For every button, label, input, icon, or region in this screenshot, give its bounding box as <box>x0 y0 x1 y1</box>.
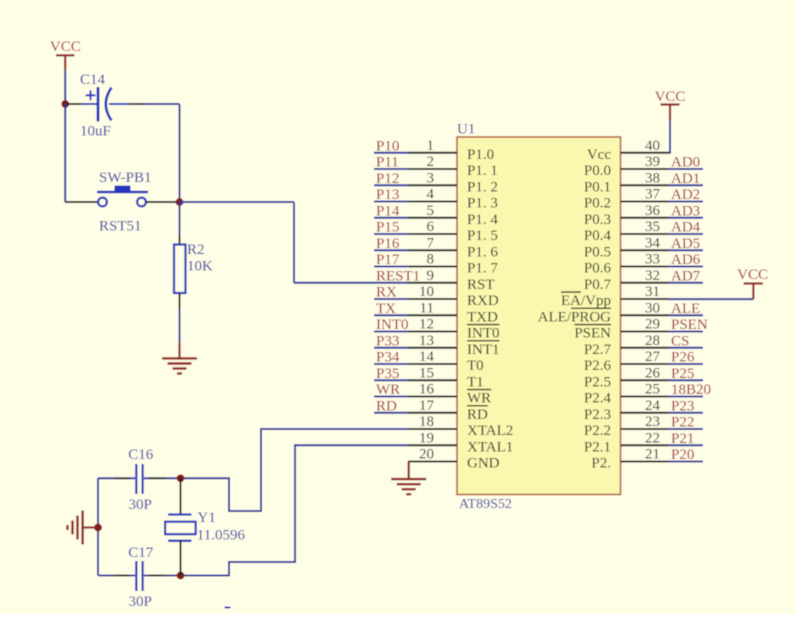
wire net AD1 <box>669 184 704 186</box>
wire left column to C16 <box>98 477 114 479</box>
switch contact circles <box>98 198 107 207</box>
svg-text:T0: T0 <box>467 358 484 374</box>
svg-text:16: 16 <box>419 382 435 398</box>
capacitor C14 right pin <box>109 103 130 105</box>
svg-text:4: 4 <box>427 187 435 203</box>
svg-text:AD1: AD1 <box>671 171 700 187</box>
pin 27 stub (P2.6) <box>621 363 669 365</box>
svg-text:39: 39 <box>645 154 660 170</box>
wire C14 to corner <box>146 103 180 105</box>
resistor R2 top pin <box>179 236 181 245</box>
svg-text:P21: P21 <box>671 431 694 447</box>
pin 15 stub (T1) <box>408 379 457 381</box>
wire net P16 <box>374 249 409 251</box>
svg-text:P0.1: P0.1 <box>584 179 611 195</box>
pin 32 stub (P0.7) <box>621 282 669 284</box>
svg-text:P1. 3: P1. 3 <box>467 196 498 212</box>
svg-text:33: 33 <box>645 252 660 268</box>
wire left column to C17 <box>98 575 114 577</box>
svg-text:P1. 5: P1. 5 <box>467 228 498 244</box>
svg-text:P2.3: P2.3 <box>584 407 611 423</box>
svg-text:P23: P23 <box>671 398 694 414</box>
svg-text:P25: P25 <box>671 366 694 382</box>
svg-text:P2.4: P2.4 <box>584 391 612 407</box>
svg-text:18B20: 18B20 <box>671 382 711 398</box>
pin 30 stub (ALE/PROG) <box>621 314 669 316</box>
wire net P13 <box>374 201 409 203</box>
resistor R2 body <box>174 245 186 294</box>
svg-text:P1. 4: P1. 4 <box>467 212 498 228</box>
svg-text:14: 14 <box>419 349 435 365</box>
svg-text:RD: RD <box>467 407 488 423</box>
svg-text:24: 24 <box>645 398 661 414</box>
svg-text:P2.2: P2.2 <box>584 423 611 439</box>
svg-text:RST51: RST51 <box>99 219 142 235</box>
svg-text:P2.6: P2.6 <box>584 358 612 374</box>
wire net TX <box>374 314 409 316</box>
wire net P26 <box>669 363 704 365</box>
svg-text:7: 7 <box>427 235 435 251</box>
svg-text:3: 3 <box>427 170 435 186</box>
crystal Y1 bottom pin <box>180 541 182 576</box>
svg-text:P33: P33 <box>376 333 399 349</box>
svg-text:P1. 6: P1. 6 <box>467 244 498 260</box>
pin 1 stub (P1.0) <box>408 152 457 154</box>
svg-text:AD5: AD5 <box>671 236 700 252</box>
wire net RX <box>374 298 409 300</box>
wire net P14 <box>374 217 409 219</box>
svg-text:P1. 1: P1. 1 <box>467 163 498 179</box>
svg-text:AD0: AD0 <box>671 155 700 171</box>
svg-text:C16: C16 <box>128 447 154 463</box>
pin 17 stub (RD) <box>408 412 457 414</box>
svg-text:P20: P20 <box>671 447 694 463</box>
wire net AD3 <box>669 217 704 219</box>
svg-text:WR: WR <box>467 391 491 407</box>
svg-text:VCC: VCC <box>50 39 81 55</box>
svg-text:P2.1: P2.1 <box>584 439 611 455</box>
svg-text:INT0: INT0 <box>376 317 409 333</box>
svg-text:30P: 30P <box>129 497 152 513</box>
wire net P10 <box>374 152 409 154</box>
pin 35 stub (P0.4) <box>621 233 669 235</box>
wire net REST1 <box>294 282 409 284</box>
op IC U1 AT89S52 body <box>457 137 621 495</box>
svg-text:P0.2: P0.2 <box>584 196 611 212</box>
svg-text:TXD: TXD <box>467 309 498 325</box>
pin 34 stub (P0.5) <box>621 249 669 251</box>
wire VCC to C14 row <box>64 70 66 104</box>
wire net P20 <box>669 461 704 463</box>
svg-text:CS: CS <box>671 333 689 349</box>
svg-text:P11: P11 <box>376 155 399 171</box>
svg-text:21: 21 <box>645 447 660 463</box>
svg-text:31: 31 <box>645 284 660 300</box>
switch left pin <box>65 201 98 203</box>
wire XTAL1 (pin 19) to crystal bottom <box>181 445 410 575</box>
ground (crystal, rotated) <box>83 526 98 528</box>
svg-text:P0.5: P0.5 <box>584 244 611 260</box>
pin 28 stub (P2.7) <box>621 347 669 349</box>
svg-text:11.0596: 11.0596 <box>197 528 246 544</box>
crystal Y1 top pin <box>180 478 182 514</box>
svg-text:U1: U1 <box>457 121 475 137</box>
wire corner down to pin 9 <box>293 202 295 283</box>
wire net P25 <box>669 379 704 381</box>
wire switch junction down to R2 <box>179 202 181 236</box>
wire switch to REST1 corner <box>180 201 295 203</box>
pin 33 stub (P0.6) <box>621 266 669 268</box>
pin 4 stub (P1. 3) <box>408 201 457 203</box>
svg-text:P1.0: P1.0 <box>467 147 494 163</box>
wire net P22 <box>669 428 704 430</box>
capacitor C16 plates <box>135 464 137 494</box>
pin 39 stub (P0.0) <box>621 168 669 170</box>
svg-text:32: 32 <box>645 268 660 284</box>
svg-text:40: 40 <box>645 138 660 154</box>
svg-text:VCC: VCC <box>655 89 686 105</box>
wire net AD0 <box>669 168 704 170</box>
wire net AD4 <box>669 233 704 235</box>
svg-text:ALE/PROG: ALE/PROG <box>538 309 612 325</box>
wire net P12 <box>374 184 409 186</box>
capacitor C16 right pin <box>144 477 149 479</box>
wire net AD7 <box>669 282 704 284</box>
svg-text:C17: C17 <box>128 545 154 561</box>
svg-text:R2: R2 <box>187 242 205 258</box>
pin 37 stub (P0.2) <box>621 201 669 203</box>
svg-text:36: 36 <box>645 203 661 219</box>
svg-text:ALE: ALE <box>671 301 700 317</box>
svg-text:10K: 10K <box>187 259 213 275</box>
svg-text:10uF: 10uF <box>80 124 111 140</box>
junction crystal top <box>177 474 185 482</box>
pin 5 stub (P1. 4) <box>408 217 457 219</box>
overline PROG <box>571 307 611 309</box>
pin 18 stub (XTAL2) <box>408 428 457 430</box>
capacitor C17 plates <box>135 561 137 591</box>
svg-text:SW-PB1: SW-PB1 <box>99 170 152 186</box>
pin 3 stub (P1. 2) <box>408 184 457 186</box>
pin 21 stub (P2.) <box>621 461 669 463</box>
svg-text:T1: T1 <box>467 374 484 390</box>
svg-text:17: 17 <box>419 398 435 414</box>
svg-text:AD3: AD3 <box>671 203 700 219</box>
pin 11 stub (TXD) <box>408 314 457 316</box>
svg-text:12: 12 <box>419 317 434 333</box>
resistor R2 bottom pin <box>179 293 181 308</box>
svg-text:REST1: REST1 <box>376 268 420 284</box>
pin 6 stub (P1. 5) <box>408 233 457 235</box>
pin 8 stub (P1. 7) <box>408 266 457 268</box>
svg-text:TX: TX <box>376 301 396 317</box>
wire VCC to pin 31 <box>669 298 754 300</box>
svg-text:11: 11 <box>420 300 434 316</box>
switch actuator bar <box>97 191 148 194</box>
svg-text:5: 5 <box>427 203 435 219</box>
junction switch/R2 <box>176 198 184 206</box>
svg-text:XTAL1: XTAL1 <box>467 439 513 455</box>
wire net 18B20 <box>669 396 704 398</box>
pin 23 stub (P2.2) <box>621 428 669 430</box>
wire net P35 <box>374 379 409 381</box>
svg-text:P22: P22 <box>671 415 694 431</box>
svg-text:RX: RX <box>376 285 397 301</box>
svg-text:2: 2 <box>427 154 435 170</box>
svg-text:PSEN: PSEN <box>574 326 611 342</box>
wire net P21 <box>669 444 704 446</box>
svg-text:25: 25 <box>645 382 660 398</box>
pin 29 stub (PSEN) <box>621 331 669 333</box>
overline WR <box>467 389 491 391</box>
svg-text:P16: P16 <box>376 236 400 252</box>
svg-text:P12: P12 <box>376 171 399 187</box>
svg-text:P15: P15 <box>376 220 399 236</box>
svg-text:13: 13 <box>419 333 434 349</box>
svg-text:9: 9 <box>427 268 435 284</box>
svg-text:AT89S52: AT89S52 <box>459 497 512 512</box>
svg-text:P35: P35 <box>376 366 399 382</box>
svg-text:P10: P10 <box>376 138 399 154</box>
svg-text:6: 6 <box>427 219 435 235</box>
svg-text:30: 30 <box>645 300 660 316</box>
svg-text:Vcc: Vcc <box>587 147 611 163</box>
capacitor C17 left pin <box>114 575 130 577</box>
svg-text:P2.7: P2.7 <box>584 342 612 358</box>
svg-text:P0.3: P0.3 <box>584 212 611 228</box>
pin 40 stub (Vcc) <box>621 152 670 154</box>
svg-text:GND: GND <box>467 456 500 472</box>
svg-text:AD6: AD6 <box>671 252 701 268</box>
svg-text:P13: P13 <box>376 187 399 203</box>
svg-text:35: 35 <box>645 219 660 235</box>
capacitor C14 left pin <box>66 103 82 105</box>
svg-text:P34: P34 <box>376 350 400 366</box>
svg-text:22: 22 <box>645 430 660 446</box>
wire net P23 <box>669 412 704 414</box>
svg-text:P0.0: P0.0 <box>584 163 611 179</box>
svg-text:18: 18 <box>419 414 434 430</box>
svg-text:WR: WR <box>376 382 400 398</box>
pin 10 stub (RXD) <box>408 298 457 300</box>
wire VCC branch down to switch <box>64 104 66 202</box>
pin 19 stub (XTAL1) <box>408 444 457 446</box>
capacitor C14 plates <box>97 87 100 122</box>
svg-text:C14: C14 <box>80 72 106 88</box>
junction VCC/C14 <box>61 100 69 108</box>
svg-text:27: 27 <box>645 349 661 365</box>
pin 9 stub (RST) <box>408 282 457 284</box>
pin 36 stub (P0.3) <box>621 217 669 219</box>
ground (pin 20) <box>408 462 410 479</box>
svg-text:10: 10 <box>419 284 434 300</box>
svg-text:Y1: Y1 <box>197 510 215 526</box>
capacitor C16 left pin <box>114 477 130 479</box>
wire net CS <box>669 347 704 349</box>
svg-text:AD2: AD2 <box>671 187 700 203</box>
wire C16 to junction <box>166 477 181 479</box>
pin 2 stub (P1. 1) <box>408 168 457 170</box>
wire net P15 <box>374 233 409 235</box>
svg-text:19: 19 <box>419 430 434 446</box>
svg-text:XTAL2: XTAL2 <box>467 423 513 439</box>
svg-text:P17: P17 <box>376 252 400 268</box>
wire VCC to pin 40 <box>669 121 671 154</box>
svg-text:INT0: INT0 <box>467 326 500 342</box>
pin 16 stub (WR) <box>408 396 457 398</box>
wire net AD2 <box>669 201 704 203</box>
svg-text:AD4: AD4 <box>671 220 701 236</box>
svg-text:P0.7: P0.7 <box>584 277 612 293</box>
wire C17 to junction <box>166 575 181 577</box>
svg-text:P0.6: P0.6 <box>584 261 612 277</box>
wire net P34 <box>374 363 409 365</box>
svg-text:1: 1 <box>427 138 435 154</box>
wire net P11 <box>374 168 409 170</box>
svg-text:P1. 7: P1. 7 <box>467 261 498 277</box>
wire net P33 <box>374 347 409 349</box>
wire net WR <box>374 396 409 398</box>
junction crystal bottom <box>177 572 185 580</box>
pin 25 stub (P2.4) <box>621 396 669 398</box>
overline PSEN (pin name) <box>574 324 611 326</box>
overline RD <box>467 405 488 407</box>
junction left ground <box>94 524 102 532</box>
svg-text:20: 20 <box>419 447 434 463</box>
svg-text:AD7: AD7 <box>671 268 701 284</box>
pin 7 stub (P1. 6) <box>408 249 457 251</box>
wire net AD6 <box>669 266 704 268</box>
svg-text:INT1: INT1 <box>467 342 500 358</box>
capacitor C17 right pin <box>144 575 149 577</box>
wire net ALE <box>669 314 704 316</box>
pin 14 stub (T0) <box>408 363 457 365</box>
pin 38 stub (P0.1) <box>621 184 669 186</box>
svg-text:23: 23 <box>645 414 660 430</box>
wire net PSEN <box>669 331 704 333</box>
svg-text:P2.5: P2.5 <box>584 374 611 390</box>
wire XTAL2 (pin 18) to crystal top <box>181 429 410 511</box>
svg-text:26: 26 <box>645 365 661 381</box>
wire net P17 <box>374 266 409 268</box>
svg-text:28: 28 <box>645 333 660 349</box>
wire R2 to ground <box>179 308 181 343</box>
svg-text:8: 8 <box>427 252 435 268</box>
svg-text:VCC: VCC <box>737 267 768 283</box>
svg-text:RXD: RXD <box>467 293 499 309</box>
svg-text:P1. 2: P1. 2 <box>467 179 498 195</box>
pin 26 stub (P2.5) <box>621 379 669 381</box>
wire net RD <box>374 412 409 414</box>
svg-text:EA/Vpp: EA/Vpp <box>561 293 611 309</box>
pin 20 stub (GND) <box>408 461 457 463</box>
overline INT1 <box>467 340 499 342</box>
svg-text:34: 34 <box>645 235 661 251</box>
wire net AD5 <box>669 249 704 251</box>
crystal Y1 plates and body <box>168 513 192 515</box>
svg-text:38: 38 <box>645 170 660 186</box>
ground (below R2) <box>178 343 180 359</box>
svg-text:P2.: P2. <box>591 456 611 472</box>
pin 13 stub (INT1) <box>408 347 457 349</box>
switch right pin <box>146 201 180 203</box>
pin 24 stub (P2.3) <box>621 412 669 414</box>
stray blue dash <box>225 607 231 609</box>
svg-text:P0.4: P0.4 <box>584 228 612 244</box>
overline EA <box>561 291 581 293</box>
svg-text:29: 29 <box>645 317 660 333</box>
svg-text:37: 37 <box>645 187 661 203</box>
svg-text:15: 15 <box>419 365 434 381</box>
svg-text:RD: RD <box>376 398 397 414</box>
wire corner down to switch row <box>179 104 181 202</box>
pin 22 stub (P2.1) <box>621 444 669 446</box>
wire left column C16-C17 <box>97 478 99 575</box>
svg-text:P26: P26 <box>671 350 695 366</box>
svg-text:30P: 30P <box>129 594 152 610</box>
svg-text:RST: RST <box>467 277 495 293</box>
overline INT0 <box>467 324 499 326</box>
svg-text:P14: P14 <box>376 203 400 219</box>
pin 12 stub (INT0) <box>408 331 457 333</box>
wire net INT0 <box>374 331 409 333</box>
svg-text:PSEN: PSEN <box>671 317 708 333</box>
pin 31 stub (EA/Vpp) <box>621 298 669 300</box>
C14 plus sign <box>86 94 96 96</box>
